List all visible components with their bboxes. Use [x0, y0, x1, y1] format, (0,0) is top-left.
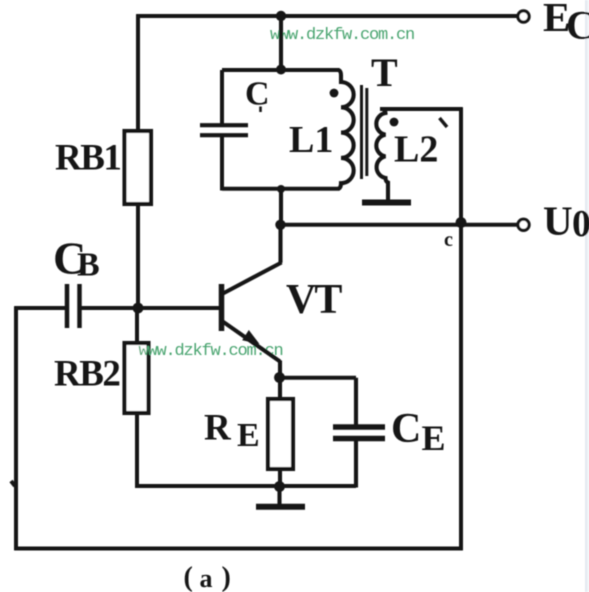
L1 phase dot [330, 89, 339, 98]
capacitor CE [333, 424, 385, 429]
svg-text:L2: L2 [394, 129, 438, 171]
svg-text:www.dzkfw.com.cn: www.dzkfw.com.cn [270, 26, 414, 45]
ground L2 [362, 200, 411, 206]
wire left vertical upper [136, 14, 140, 132]
node emitter resistor bottom [274, 481, 285, 492]
scan edge line right [585, 0, 587, 592]
tank top wire [222, 68, 340, 72]
wire top supply rail [136, 14, 517, 18]
terminal EC [518, 11, 529, 22]
wire bottom outer [14, 547, 463, 551]
wire collector to U0 terminal [279, 223, 518, 227]
node collector junction [275, 220, 285, 230]
transistor VT [219, 284, 225, 331]
node U0 junction [456, 217, 467, 228]
svg-text:E: E [422, 418, 446, 458]
wire left outer vertical [14, 306, 18, 550]
svg-text:a: a [200, 564, 213, 592]
svg-text:C: C [391, 406, 421, 452]
svg-text:): ) [222, 562, 231, 592]
L2 phase dot [390, 118, 399, 127]
node top rail junction [276, 11, 286, 21]
svg-text:VT: VT [286, 277, 342, 323]
wire CB right to base node [82, 306, 139, 310]
svg-text:c: c [444, 229, 453, 251]
wire RB2 bottom to emitter ground rail [137, 413, 356, 486]
resistor RE [278, 378, 282, 399]
svg-text:www.dzkfw.com.cn: www.dzkfw.com.cn [139, 342, 283, 361]
svg-text:U: U [543, 198, 573, 244]
capacitor C [220, 70, 224, 124]
wire tank feed lower [279, 189, 283, 226]
inductor L2 [376, 109, 388, 200]
svg-text:0: 0 [572, 203, 589, 245]
wire base node to RB2 [135, 308, 139, 343]
stray blob on left wire [11, 481, 15, 486]
node tank top junction [276, 65, 286, 75]
transformer core [360, 85, 363, 179]
wire CE top lead [354, 378, 358, 425]
wire emitter node to CE top [280, 376, 357, 380]
svg-text:(: ( [184, 562, 193, 592]
node emitter junction [274, 372, 285, 383]
node base junction [133, 303, 144, 314]
stray tick mark [440, 118, 448, 127]
wire L2 top to right edge [380, 107, 463, 111]
inductor L1 [339, 70, 354, 189]
svg-text:C: C [566, 3, 589, 48]
svg-text:T: T [371, 50, 398, 95]
wire RB1 to base node [136, 204, 140, 308]
svg-text:L1: L1 [289, 119, 333, 161]
svg-text:RB2: RB2 [54, 354, 119, 395]
svg-text:R: R [204, 408, 232, 449]
svg-text:RB1: RB1 [55, 138, 120, 179]
capacitor CB [65, 284, 70, 328]
svg-text:E: E [237, 417, 260, 454]
ground main [277, 486, 281, 504]
wire tank feed upper [279, 16, 283, 72]
resistor RB2 [125, 343, 149, 413]
resistor RB1 [125, 131, 152, 204]
wire collector vertical [278, 226, 282, 263]
wire right outer vertical [459, 107, 463, 550]
node tank bottom junction [277, 185, 285, 193]
wire emitter vertical [278, 361, 282, 380]
wire base node to VT base [138, 306, 220, 310]
terminal U0 [518, 219, 529, 230]
svg-text:B: B [77, 247, 100, 284]
svg-text:C: C [245, 76, 270, 113]
wire CB left [15, 306, 66, 310]
tank bottom wire [222, 187, 340, 191]
